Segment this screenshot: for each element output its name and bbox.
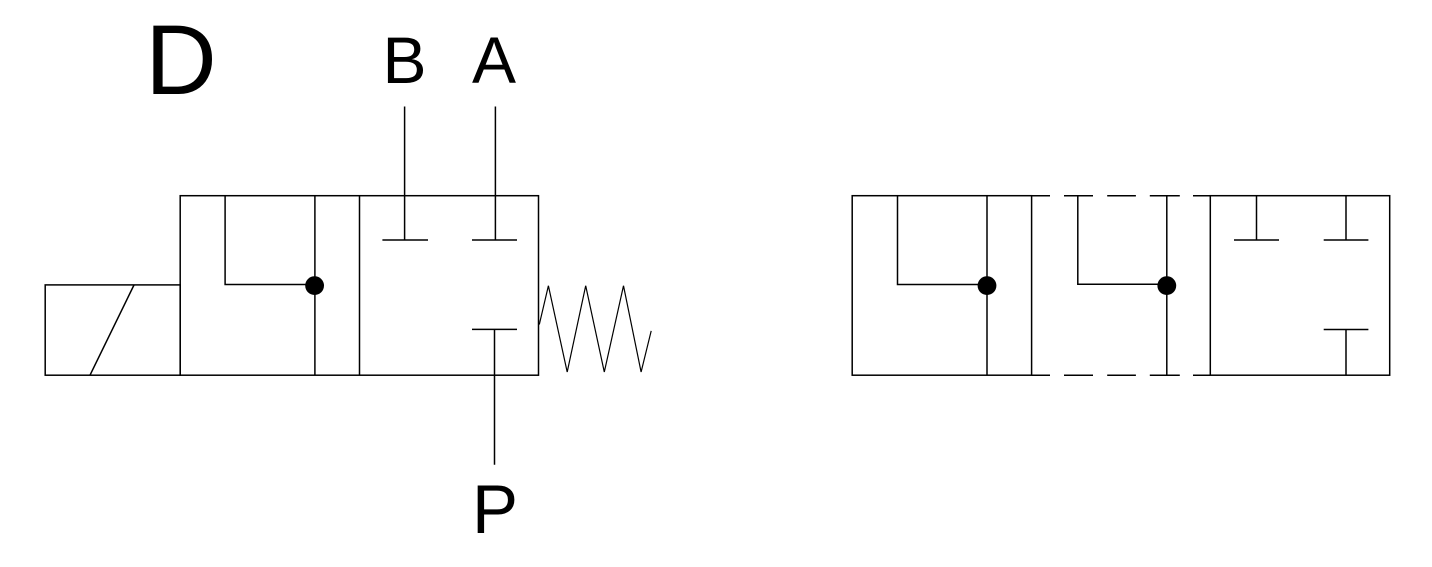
svg-text:D: D [145, 4, 217, 115]
svg-text:B: B [382, 23, 426, 97]
svg-text:P: P [472, 471, 518, 548]
svg-text:A: A [472, 23, 516, 97]
